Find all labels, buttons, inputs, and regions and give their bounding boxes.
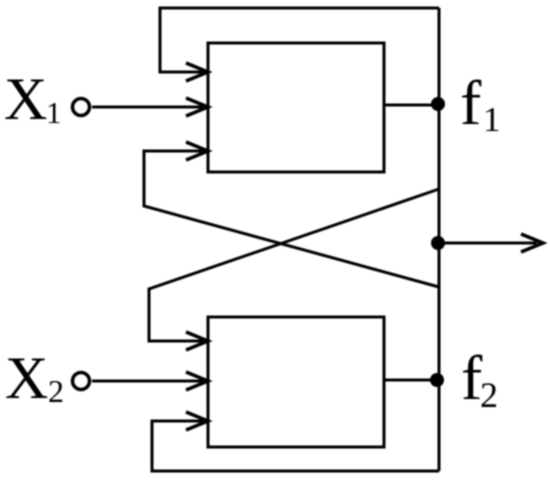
arrowhead f2 input 3 [186,412,208,430]
label f2 [461,342,498,415]
svg-text:2: 2 [48,373,64,409]
wire f1 output [384,104,439,107]
wire X2 input [92,380,203,383]
wire bottom feedback (f2 input 3 to bus bottom) [152,421,439,471]
wire f2 output [384,379,439,382]
svg-text:1: 1 [483,100,501,139]
block f2 (bottom function box) [208,317,384,447]
terminal circle X1 [73,99,90,116]
wire right vertical bus [438,8,441,471]
arrowhead f1 input 2 [186,98,208,116]
svg-text:2: 2 [480,375,498,415]
node f1 (junction dot) [431,97,445,111]
svg-text:1: 1 [46,95,62,130]
wire diagonal from bus to f2 input 1 [149,189,439,341]
wire output arrow shaft [439,242,537,245]
node f2 (junction dot) [430,373,444,387]
node output (junction dot) [431,236,445,250]
wire f1 input 3 with diagonal to bus [144,151,439,287]
arrowhead f2 input 2 [186,372,208,390]
terminal circle X2 [73,373,90,390]
label f1 [460,67,501,139]
label X1 [4,66,62,132]
wire top feedback (bus top to f1 input 1) [160,8,439,72]
svg-text:f: f [460,67,482,138]
svg-text:X: X [4,66,47,132]
svg-text:X: X [5,345,48,411]
block f1 (top function box) [208,43,384,172]
label X2 [5,345,64,411]
arrowhead f1 input 1 [186,63,208,81]
arrowhead output [521,234,543,252]
wire X1 input [92,106,203,109]
arrowhead f2 input 1 [186,332,208,350]
arrowhead f1 input 3 [186,142,208,160]
